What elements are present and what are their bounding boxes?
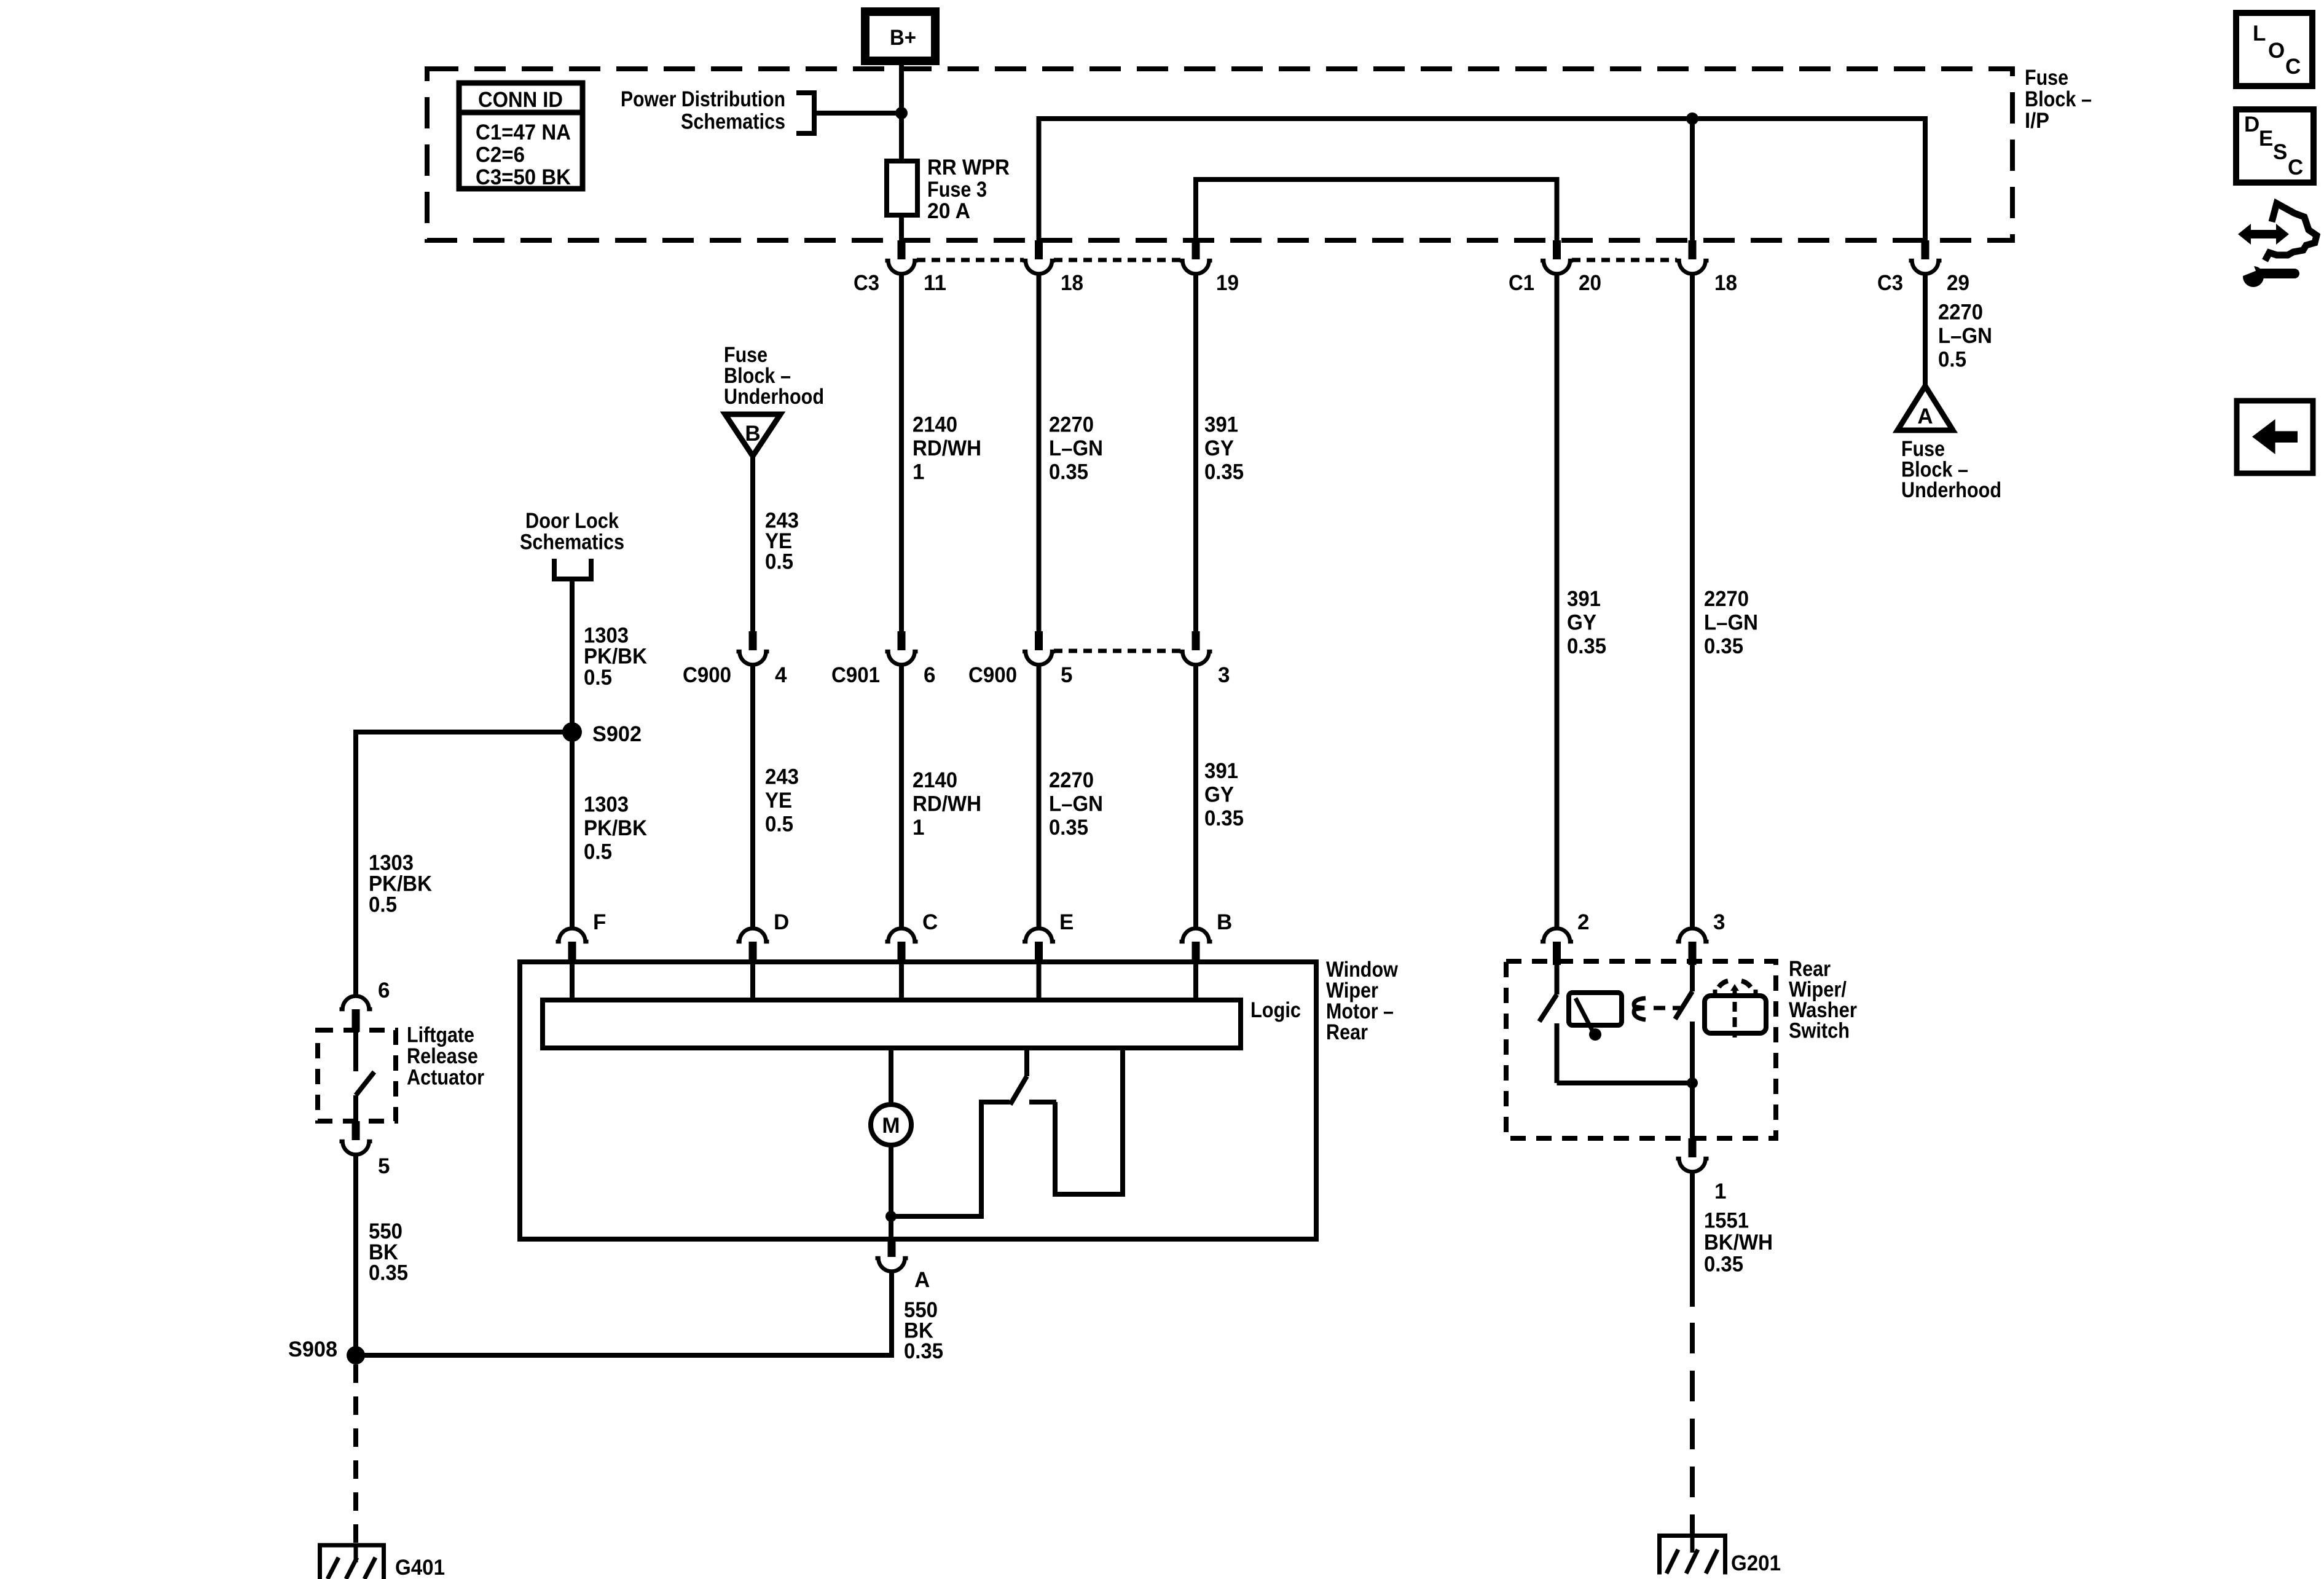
connector C1 pin 20 — [1541, 240, 1573, 274]
svg-text:Release: Release — [407, 1044, 478, 1068]
wire 2270 L-GN lower — [1037, 664, 1042, 927]
svg-text:C: C — [2288, 156, 2303, 179]
label 2270 L-GN 0.35 switch — [1704, 587, 1758, 658]
svg-text:C3: C3 — [854, 271, 879, 295]
svg-text:C2=6: C2=6 — [476, 143, 525, 167]
label 2140 RD/WH 1 lower — [913, 768, 981, 840]
svg-text:PK/BK: PK/BK — [584, 816, 647, 840]
label Door Lock Schematics — [520, 509, 624, 554]
svg-text:3: 3 — [1713, 910, 1725, 934]
svg-text:F: F — [593, 910, 606, 934]
motor pin E connector — [1023, 929, 1055, 965]
dashed wire to G201 — [1690, 1323, 1695, 1534]
svg-text:S902: S902 — [592, 722, 642, 746]
node label C1 20 — [1509, 271, 1601, 295]
junction dot on B+ feed — [895, 107, 908, 119]
connector C900 pin 5 — [1023, 631, 1055, 665]
liftgate switch — [356, 1032, 374, 1121]
svg-text:BK/WH: BK/WH — [1704, 1231, 1773, 1254]
park switch blade — [1010, 1048, 1027, 1105]
wire motor to bottom — [889, 1145, 893, 1239]
bracket to Power Distribution Schematics — [796, 93, 899, 133]
svg-text:B+: B+ — [890, 26, 916, 50]
label 2270 L-GN 0.35 lower — [1049, 768, 1103, 840]
motor pin F connector — [556, 929, 589, 965]
motor pin D connector — [737, 929, 769, 965]
svg-text:3: 3 — [1218, 663, 1230, 687]
CONN ID table — [459, 83, 583, 189]
svg-text:6: 6 — [924, 663, 935, 687]
junction dot on bus at x=2754 — [1686, 112, 1698, 125]
wire B+ down to fuse — [899, 61, 904, 161]
wiper switch contact 2 — [1539, 965, 1557, 1083]
Window Wiper Motor - Rear box — [520, 962, 1316, 1239]
wire 2270 L-GN upper — [1037, 274, 1042, 631]
junction dot in switch — [1687, 1077, 1698, 1089]
svg-text:0.5: 0.5 — [1938, 348, 1966, 372]
svg-text:0.35: 0.35 — [1049, 816, 1088, 840]
switch pin 2 connector — [1541, 929, 1573, 966]
off-page triangle A Fuse Block Underhood — [1898, 386, 1953, 430]
label RR WPR Fuse 3 20 A — [927, 156, 1010, 223]
park switch right contact — [1029, 1048, 1123, 1194]
svg-text:0.5: 0.5 — [584, 666, 612, 690]
dashed wire S908 to G401 — [353, 1364, 358, 1543]
node label C900 5 — [968, 663, 1072, 687]
service icon: double arrow, part outline, wrench — [2235, 203, 2317, 287]
svg-text:S908: S908 — [288, 1337, 337, 1361]
svg-text:E: E — [1059, 910, 1074, 934]
wire junction to park switch — [891, 1102, 1010, 1216]
svg-text:D: D — [774, 910, 789, 934]
svg-text:C900: C900 — [683, 663, 731, 687]
label 1303 PK/BK 0.5 (above S902) — [584, 624, 647, 690]
label Power Distribution Schematics — [621, 87, 785, 134]
Liftgate Release Actuator pin 6 connector — [340, 996, 372, 1033]
svg-text:0.35: 0.35 — [1204, 806, 1244, 830]
svg-text:0.35: 0.35 — [1567, 634, 1606, 658]
svg-text:1: 1 — [913, 816, 924, 840]
svg-text:Door Lock: Door Lock — [525, 509, 619, 533]
svg-text:E: E — [2259, 127, 2273, 151]
wire 391 GY to switch pin 2 — [1555, 274, 1560, 927]
ground G201 — [1657, 1534, 1781, 1575]
svg-text:5: 5 — [1061, 663, 1072, 687]
svg-text:0.35: 0.35 — [369, 1261, 408, 1285]
svg-text:Fuse: Fuse — [2025, 66, 2068, 90]
connector pin 18 (right) — [1676, 240, 1709, 274]
bus wire inside fuse block at y=292 — [1196, 179, 1557, 240]
connector C3 pin 11 — [885, 240, 918, 274]
connector pin 3 — [1180, 631, 1212, 665]
svg-text:C900: C900 — [968, 663, 1017, 687]
connector pin 18 (left) — [1023, 240, 1055, 274]
svg-text:29: 29 — [1947, 271, 1969, 295]
svg-text:2270: 2270 — [1704, 587, 1749, 611]
label Liftgate Release Actuator — [407, 1023, 484, 1090]
svg-text:O: O — [2268, 39, 2285, 63]
ground G401 — [318, 1543, 445, 1579]
svg-text:2270: 2270 — [1938, 301, 1983, 325]
connector body dotted line row 2 — [1054, 649, 1180, 653]
svg-text:L–GN: L–GN — [1704, 611, 1758, 635]
LOC icon box — [2236, 13, 2312, 86]
svg-text:A: A — [914, 1268, 930, 1292]
svg-text:0.5: 0.5 — [369, 893, 397, 917]
svg-text:20 A: 20 A — [927, 199, 970, 223]
wire S902 branch left to liftgate — [356, 732, 572, 995]
svg-text:0.35: 0.35 — [1704, 1253, 1743, 1277]
svg-text:18: 18 — [1061, 271, 1083, 295]
connector body dotted lines row 1 — [917, 258, 1677, 262]
svg-text:19: 19 — [1216, 271, 1239, 295]
connector C3 pin 29 — [1909, 240, 1942, 274]
label Rear Wiper/Washer Switch — [1789, 957, 1857, 1043]
connector pin 19 — [1180, 240, 1212, 274]
node label C3 11 — [854, 271, 946, 295]
svg-text:RR WPR: RR WPR — [927, 156, 1010, 179]
node label C900 4 — [683, 663, 787, 687]
wire logic bar to motor — [889, 1048, 893, 1105]
svg-text:Logic: Logic — [1250, 998, 1301, 1022]
svg-text:6: 6 — [378, 979, 390, 1002]
mechanical link symbol — [1634, 998, 1682, 1020]
wire junction down to pin 18 — [1690, 119, 1695, 240]
svg-text:B: B — [745, 422, 760, 446]
connector C901 pin 6 — [885, 631, 918, 665]
svg-text:243: 243 — [765, 765, 799, 789]
splice S902 — [562, 722, 642, 746]
svg-text:CONN ID: CONN ID — [478, 88, 563, 112]
svg-text:C: C — [2285, 55, 2301, 79]
wire 1303 PK/BK from door lock to S902 — [570, 579, 575, 742]
label 2140 RD/WH 1 upper — [913, 413, 981, 484]
junction dot below motor — [885, 1211, 897, 1222]
label 1551 BK/WH 0.35 — [1704, 1209, 1773, 1277]
svg-text:GY: GY — [1204, 436, 1234, 460]
label Fuse Block - I/P — [2025, 66, 2092, 133]
svg-text:B: B — [1217, 910, 1232, 934]
svg-text:391: 391 — [1204, 759, 1238, 783]
svg-text:Rear: Rear — [1326, 1020, 1368, 1044]
label 243 YE 0.5 upper — [765, 509, 799, 574]
svg-text:L: L — [2253, 22, 2266, 45]
svg-text:0.5: 0.5 — [765, 813, 793, 837]
bus wire inside fuse block at y=193 — [1039, 119, 1926, 240]
Liftgate pin 5 connector — [340, 1121, 372, 1155]
wire fuse to connector C3-11 — [899, 215, 904, 240]
washer icon — [1705, 981, 1766, 1038]
svg-text:C3=50 BK: C3=50 BK — [476, 165, 571, 189]
svg-text:GY: GY — [1204, 783, 1234, 807]
svg-text:Power Distribution: Power Distribution — [621, 87, 785, 111]
wire 2140 RD/WH upper — [899, 274, 904, 631]
svg-text:Switch: Switch — [1789, 1019, 1850, 1043]
svg-text:0.5: 0.5 — [584, 840, 612, 864]
motor pin C connector — [885, 929, 918, 965]
label 243 YE 0.5 lower — [765, 765, 799, 837]
wiper icon — [1569, 993, 1622, 1041]
wires pins to logic bar — [572, 964, 1196, 1000]
wire 243 YE lower — [750, 664, 755, 927]
svg-text:C1=47 NA: C1=47 NA — [476, 120, 571, 144]
svg-text:RD/WH: RD/WH — [913, 436, 981, 460]
svg-text:2140: 2140 — [913, 768, 957, 792]
bracket below Door Lock Schematics — [554, 559, 591, 579]
svg-text:Schematics: Schematics — [681, 110, 785, 134]
DESC icon box — [2236, 109, 2314, 183]
wire 2140 RD/WH lower — [899, 664, 904, 927]
label Window Wiper Motor - Rear — [1326, 958, 1399, 1044]
svg-text:1551: 1551 — [1704, 1209, 1749, 1233]
svg-text:20: 20 — [1579, 271, 1601, 295]
svg-text:1303: 1303 — [584, 793, 629, 817]
wire 2270 L-GN to switch pin 3 — [1690, 274, 1695, 927]
svg-text:A: A — [1917, 404, 1933, 428]
label 550 BK 0.35 (liftgate) — [369, 1219, 408, 1285]
wire S902 down to motor pin F — [570, 732, 575, 927]
svg-text:5: 5 — [378, 1154, 390, 1178]
svg-text:Fuse 3: Fuse 3 — [927, 178, 987, 202]
svg-text:D: D — [2244, 112, 2259, 136]
svg-text:Actuator: Actuator — [407, 1066, 484, 1090]
wiper switch contact 3 — [1675, 965, 1692, 1138]
svg-text:RD/WH: RD/WH — [913, 792, 981, 816]
label 391 GY 0.35 upper — [1204, 413, 1244, 484]
svg-text:0.35: 0.35 — [1049, 460, 1088, 484]
logic bar — [543, 1000, 1241, 1048]
svg-text:C901: C901 — [831, 663, 880, 687]
svg-text:391: 391 — [1567, 587, 1601, 611]
svg-text:2270: 2270 — [1049, 413, 1094, 437]
svg-text:1: 1 — [1714, 1179, 1726, 1203]
label 550 BK 0.35 (pin A) — [904, 1298, 943, 1363]
svg-text:1: 1 — [913, 460, 924, 484]
splice S908 — [288, 1337, 365, 1364]
wire 550 BK from liftgate to S908 — [353, 1154, 358, 1355]
wire 243 YE upper — [750, 456, 755, 631]
svg-text:2270: 2270 — [1049, 768, 1094, 792]
wire 550 BK from pin A — [356, 1271, 892, 1355]
svg-text:Block –: Block – — [2025, 87, 2092, 111]
svg-text:L–GN: L–GN — [1938, 324, 1992, 348]
B+ battery terminal box — [865, 12, 935, 61]
svg-text:Underhood: Underhood — [1901, 478, 2001, 502]
label 391 GY 0.35 switch — [1567, 587, 1606, 658]
label 391 GY 0.35 lower — [1204, 759, 1244, 830]
svg-text:S: S — [2273, 140, 2287, 164]
svg-text:391: 391 — [1204, 413, 1238, 437]
svg-text:0.5: 0.5 — [765, 550, 793, 574]
switch pin 3 connector — [1676, 929, 1709, 965]
wire contact 2 to junction — [1557, 1081, 1693, 1085]
svg-text:C3: C3 — [1877, 271, 1903, 295]
label Fuse Block - Underhood (left) — [724, 343, 824, 409]
motor pin A connector — [876, 1239, 908, 1272]
node label C3 29 — [1877, 271, 1969, 295]
svg-text:M: M — [882, 1114, 900, 1138]
off-page triangle B Fuse Block Underhood — [725, 414, 780, 456]
svg-text:2: 2 — [1577, 910, 1589, 934]
svg-text:C: C — [922, 910, 938, 934]
svg-text:L–GN: L–GN — [1049, 436, 1103, 460]
label Fuse Block - Underhood (right) — [1901, 437, 2001, 502]
svg-text:0.35: 0.35 — [1704, 634, 1743, 658]
svg-text:L–GN: L–GN — [1049, 792, 1103, 816]
wire 391 GY upper — [1193, 274, 1198, 631]
label 1303 PK/BK 0.5 (left branch) — [369, 851, 432, 917]
label 1303 PK/BK 0.5 (below S902) — [584, 793, 647, 864]
switch pin 1 connector — [1676, 1138, 1709, 1171]
svg-text:GY: GY — [1567, 611, 1596, 635]
svg-text:0.35: 0.35 — [1204, 460, 1244, 484]
svg-text:Underhood: Underhood — [724, 385, 824, 409]
svg-text:PK/BK: PK/BK — [584, 645, 647, 669]
Fuse Block - I/P dashed box — [427, 69, 2012, 240]
motor M — [871, 1105, 911, 1145]
svg-text:18: 18 — [1714, 271, 1737, 295]
svg-text:0.35: 0.35 — [904, 1339, 943, 1363]
svg-text:YE: YE — [765, 789, 792, 813]
Rear Wiper/Washer Switch dashed box — [1506, 961, 1776, 1138]
svg-text:11: 11 — [924, 271, 946, 295]
node label C901 6 — [831, 663, 935, 687]
svg-text:2140: 2140 — [913, 413, 957, 437]
svg-text:Schematics: Schematics — [520, 530, 624, 554]
label 2270 L-GN 0.35 upper — [1049, 413, 1103, 484]
label 2270 L-GN 0.5 — [1938, 301, 1992, 372]
svg-text:C1: C1 — [1509, 271, 1534, 295]
back arrow icon box — [2237, 401, 2313, 473]
svg-text:G201: G201 — [1731, 1551, 1781, 1575]
motor pin B connector — [1180, 929, 1212, 965]
wire 1551 BK/WH — [1690, 1171, 1695, 1307]
svg-text:4: 4 — [775, 663, 787, 687]
svg-text:Liftgate: Liftgate — [407, 1023, 474, 1047]
wire 391 GY lower — [1193, 664, 1198, 927]
fuse RR WPR Fuse 3 20A — [887, 161, 917, 215]
connector C900 pin 4 — [737, 631, 769, 665]
svg-text:I/P: I/P — [2025, 109, 2049, 133]
wire 2270 L-GN 0.5 to triangle A — [1923, 274, 1928, 387]
svg-text:G401: G401 — [395, 1556, 445, 1579]
Liftgate Release Actuator dashed box — [318, 1030, 396, 1121]
